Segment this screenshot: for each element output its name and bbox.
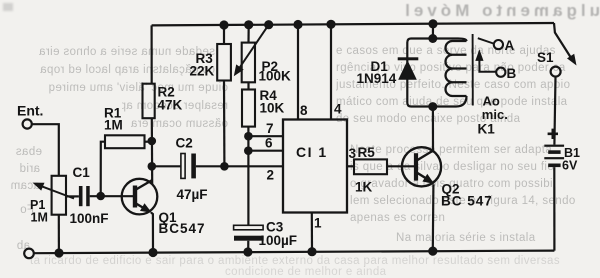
svg-text:C2: C2: [176, 136, 193, 151]
svg-text:7: 7: [266, 121, 274, 136]
svg-text:A: A: [505, 38, 515, 53]
svg-text:47K: 47K: [158, 98, 183, 113]
svg-text:1N914: 1N914: [357, 71, 397, 86]
svg-text:100nF: 100nF: [70, 211, 109, 226]
svg-text:K1: K1: [478, 122, 496, 137]
svg-text:1M: 1M: [104, 118, 123, 133]
svg-text:mic.: mic.: [482, 107, 508, 122]
svg-text:10K: 10K: [260, 101, 285, 116]
svg-text:S1: S1: [537, 50, 554, 65]
svg-text:4: 4: [334, 102, 342, 117]
svg-text:BC547: BC547: [159, 221, 206, 236]
svg-text:2: 2: [267, 168, 275, 183]
svg-text:BC 547: BC 547: [441, 194, 493, 209]
svg-text:8: 8: [300, 103, 308, 118]
svg-text:6V: 6V: [562, 159, 578, 173]
svg-text:B: B: [507, 66, 517, 81]
svg-text:47µF: 47µF: [177, 187, 208, 202]
svg-text:1: 1: [314, 216, 322, 231]
svg-text:100µF: 100µF: [259, 233, 298, 248]
svg-text:Ent.: Ent.: [17, 103, 43, 119]
svg-text:1K: 1K: [355, 180, 373, 195]
svg-text:C1: C1: [73, 165, 91, 180]
svg-text:22K: 22K: [190, 64, 215, 79]
svg-text:1M: 1M: [31, 211, 48, 225]
svg-text:R5: R5: [358, 145, 376, 160]
svg-text:6: 6: [265, 136, 273, 151]
svg-text:CI 1: CI 1: [296, 144, 328, 160]
svg-text:3: 3: [349, 146, 357, 161]
svg-text:100K: 100K: [259, 69, 292, 84]
